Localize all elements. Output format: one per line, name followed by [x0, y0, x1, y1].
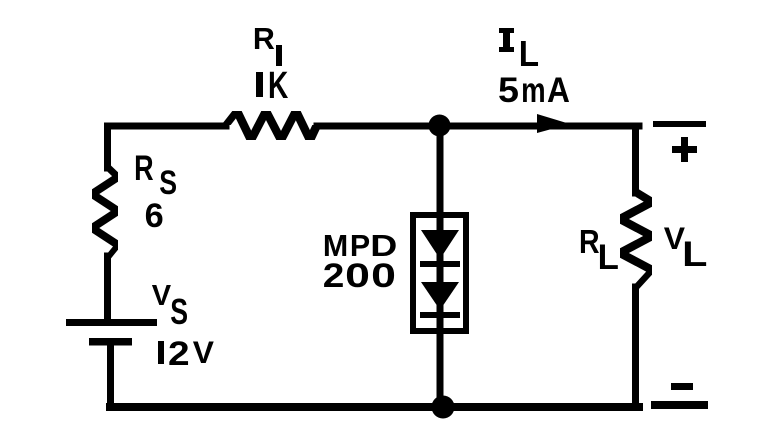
svg-text:S: S — [170, 292, 188, 332]
svg-text:0: 0 — [371, 257, 396, 295]
svg-text:5: 5 — [498, 71, 519, 110]
svg-text:L: L — [682, 235, 707, 274]
svg-text:6: 6 — [145, 197, 164, 235]
svg-text:V: V — [152, 280, 172, 312]
svg-text:R: R — [253, 22, 275, 56]
svg-text:0: 0 — [345, 257, 370, 295]
svg-text:m: m — [521, 71, 546, 110]
svg-text:L: L — [519, 33, 539, 74]
svg-text:A: A — [547, 71, 570, 110]
svg-text:2: 2 — [168, 335, 190, 373]
svg-text:2: 2 — [323, 257, 345, 295]
svg-text:K: K — [268, 64, 288, 106]
svg-text:L: L — [598, 238, 619, 277]
svg-text:R: R — [579, 224, 600, 261]
svg-text:R: R — [134, 149, 154, 188]
svg-text:V: V — [193, 334, 215, 370]
